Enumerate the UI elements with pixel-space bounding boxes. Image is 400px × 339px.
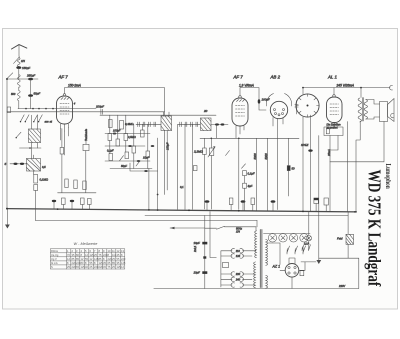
coil L2 xyxy=(17,75,20,88)
bus 3 xyxy=(145,215,348,217)
ground chassis xyxy=(6,209,8,225)
wire xyxy=(157,138,159,209)
wire xyxy=(238,138,240,209)
coil oscillator xyxy=(27,155,41,175)
svg-text:220: 220 xyxy=(121,257,126,261)
capacitor xyxy=(70,200,74,202)
wire xyxy=(18,101,20,109)
wire xyxy=(308,212,310,249)
capacitor padder xyxy=(13,163,17,165)
wire xyxy=(330,136,338,212)
resistor xyxy=(65,179,68,188)
wire xyxy=(310,115,312,212)
table Messwerte xyxy=(50,242,125,269)
wire xyxy=(277,119,279,210)
taps 220 xyxy=(231,272,255,276)
heater lamp 1 xyxy=(268,234,276,242)
svg-text:Röhre: Röhre xyxy=(51,249,59,253)
resistor black top xyxy=(314,198,318,204)
IF transformer 1 xyxy=(161,112,172,131)
taps 110 xyxy=(231,249,256,253)
switch pair wave/long xyxy=(21,115,30,122)
resistor on v61 xyxy=(60,148,64,155)
field coil xyxy=(346,234,354,244)
svg-text:Feld: Feld xyxy=(337,237,343,241)
wire xyxy=(347,122,349,212)
wire mixer bottom xyxy=(130,163,158,171)
svg-text:am at: am at xyxy=(45,120,53,124)
heater line xyxy=(264,233,311,235)
node xyxy=(32,108,34,110)
capacitor mixer a xyxy=(113,133,117,135)
wire return xyxy=(319,258,359,288)
svg-text:20: 20 xyxy=(203,109,208,113)
capacitor xyxy=(205,200,210,203)
coil bandfilter 1 xyxy=(29,115,41,142)
svg-text:220: 220 xyxy=(235,272,241,276)
ground 2 xyxy=(318,212,320,260)
svg-text:1,9 V/8mA: 1,9 V/8mA xyxy=(239,83,254,87)
IF transformer 2 xyxy=(201,118,212,131)
table grid xyxy=(50,249,125,269)
wire dial arrow xyxy=(170,227,205,229)
wire speaker return xyxy=(330,122,384,162)
wire xyxy=(110,141,148,169)
wire verticals mid xyxy=(178,124,193,209)
wire xyxy=(32,143,38,159)
svg-text:WD 375 K Landgraf: WD 375 K Landgraf xyxy=(364,170,383,287)
svg-text:50pF: 50pF xyxy=(121,164,127,168)
wire xyxy=(302,88,304,94)
wire xyxy=(288,138,290,196)
heater lamp 4 xyxy=(300,234,308,242)
component xyxy=(193,166,197,171)
capacitor 10uF xyxy=(202,242,207,245)
wire IF1 secondaries xyxy=(165,131,168,195)
resistor xyxy=(74,180,77,189)
connector Z xyxy=(391,113,394,117)
node xyxy=(29,147,31,149)
wire anode bus right xyxy=(303,87,390,89)
component xyxy=(120,121,124,130)
svg-text:AL 1: AL 1 xyxy=(327,75,338,80)
capacitor row 2 xyxy=(180,122,198,127)
resistor xyxy=(88,199,92,205)
node xyxy=(38,108,40,110)
wire xyxy=(267,243,305,288)
component xyxy=(243,171,247,176)
heater lamp 2 xyxy=(279,234,287,242)
fuse box xyxy=(223,263,229,268)
bus 2 xyxy=(35,219,257,221)
wire anode V2 xyxy=(240,88,259,100)
wire xyxy=(136,123,161,125)
svg-text:100pF: 100pF xyxy=(113,129,121,133)
svg-text:50pF: 50pF xyxy=(34,92,41,96)
wire bus g3 xyxy=(100,114,216,116)
svg-text:125: 125 xyxy=(121,261,126,265)
tube V3 AB2 xyxy=(270,101,287,118)
wire xyxy=(10,163,27,165)
switch antenna xyxy=(14,57,20,64)
svg-text:ΩΗ: ΩΗ xyxy=(21,59,25,63)
resistor 0,1M xyxy=(34,175,38,184)
svg-text:2x0,1: 2x0,1 xyxy=(193,245,197,253)
svg-text:SPEZ: SPEZ xyxy=(301,143,309,147)
resistor xyxy=(324,198,328,205)
tone capacitor xyxy=(83,144,89,150)
primary winding upper xyxy=(255,231,257,258)
selector rail xyxy=(221,251,232,287)
resistor xyxy=(81,198,85,205)
wire xyxy=(259,104,266,111)
wire bus avc xyxy=(200,137,299,139)
resistor xyxy=(251,198,255,205)
capacitor xyxy=(241,200,246,203)
switch xyxy=(302,245,311,251)
wire xyxy=(30,80,32,109)
svg-text:Tonblende: Tonblende xyxy=(84,128,88,141)
node xyxy=(6,208,8,210)
tube pins V2 xyxy=(236,126,244,138)
svg-text:0,5: 0,5 xyxy=(42,165,46,169)
output transformer xyxy=(358,88,367,122)
node xyxy=(148,209,150,211)
tube socket circle xyxy=(296,94,319,117)
svg-text:245 V/26mA: 245 V/26mA xyxy=(336,83,355,87)
tube V4 AL1 xyxy=(327,97,343,123)
svg-text:AB 2: AB 2 xyxy=(270,75,281,80)
capacitor row 1 xyxy=(138,122,156,127)
node xyxy=(302,87,304,89)
wire xyxy=(244,176,246,211)
wire xyxy=(18,69,20,79)
node xyxy=(188,209,190,211)
secondary winding lower xyxy=(266,275,268,288)
capacitor grid xyxy=(101,109,103,114)
node xyxy=(238,210,240,212)
switch 3 xyxy=(16,132,21,137)
coil L3 xyxy=(17,91,20,101)
resistor mid right xyxy=(287,166,290,171)
node xyxy=(25,108,27,110)
resistor xyxy=(229,198,233,205)
svg-text:2,5MΩ: 2,5MΩ xyxy=(127,135,136,139)
electrolytic rail xyxy=(204,216,206,289)
node xyxy=(52,108,54,110)
capacitor stub xyxy=(295,101,298,115)
wire mixer drop xyxy=(148,169,150,210)
component xyxy=(243,183,247,188)
tube V2 AF7 xyxy=(232,98,248,126)
wire bus2 drop xyxy=(256,220,258,227)
switch xyxy=(7,73,13,79)
wire xyxy=(18,87,20,91)
switch detector xyxy=(226,151,230,156)
component xyxy=(7,107,10,113)
wire xyxy=(34,209,36,221)
wire xyxy=(205,227,256,231)
resistor xyxy=(203,148,207,155)
wire xyxy=(20,147,42,149)
svg-text:2,2MΩ: 2,2MΩ xyxy=(193,150,204,154)
resistor xyxy=(62,198,66,205)
svg-text:Ik mA: Ik mA xyxy=(51,261,58,265)
svg-text:125: 125 xyxy=(236,254,241,258)
primary winding lower xyxy=(254,262,256,288)
svg-text:Ua Ug: Ua Ug xyxy=(51,253,59,257)
component xyxy=(34,185,38,191)
wire xyxy=(105,134,152,169)
svg-text:Ug V: Ug V xyxy=(51,257,57,261)
svg-text:0,1μF: 0,1μF xyxy=(248,172,255,176)
wire bus g1 xyxy=(18,108,96,110)
node xyxy=(360,87,362,89)
heater lamp 3 xyxy=(289,234,297,242)
svg-text:4μF: 4μF xyxy=(248,184,253,188)
svg-text:AF 7: AF 7 xyxy=(58,75,69,80)
svg-text:50: 50 xyxy=(292,167,296,171)
capacitor 250pF xyxy=(28,78,33,81)
rectifier AZ1 xyxy=(285,264,299,278)
switch pair 2 xyxy=(34,115,43,122)
wire AB2 pin stubs xyxy=(273,118,283,127)
node xyxy=(238,138,240,140)
wire xyxy=(347,212,349,258)
bottom line xyxy=(154,288,359,290)
svg-text:150pF: 150pF xyxy=(22,66,30,70)
svg-text:10μF: 10μF xyxy=(194,270,201,274)
svg-text:500: 500 xyxy=(11,92,16,96)
resistor xyxy=(326,129,329,134)
wire xyxy=(110,115,148,151)
capacitor 10uF b xyxy=(202,271,207,274)
svg-text:100pF: 100pF xyxy=(262,98,270,102)
secondary winding upper xyxy=(266,239,268,265)
wire xyxy=(273,233,305,235)
wire xyxy=(211,124,228,126)
coil L1 xyxy=(18,58,21,67)
resistor xyxy=(83,181,86,190)
svg-text:ΩΗ: ΩΗ xyxy=(236,229,240,233)
wire bus g2 xyxy=(7,111,165,113)
main bus xyxy=(7,209,356,212)
svg-text:240: 240 xyxy=(235,278,241,282)
wire stubs to bus xyxy=(54,202,326,211)
switch xyxy=(242,164,246,169)
wire AZ1 top pins xyxy=(289,258,295,264)
tube V1 AF7 xyxy=(57,96,73,124)
svg-text:AZ 1: AZ 1 xyxy=(272,265,281,269)
svg-text:S: S xyxy=(51,265,53,269)
taps 240 xyxy=(231,277,252,281)
capacitor xyxy=(308,149,312,151)
potentiometer xyxy=(209,148,214,156)
node xyxy=(157,194,159,196)
taps 125 xyxy=(231,254,252,258)
svg-text:AF 7: AF 7 xyxy=(233,75,244,80)
wire AB2 caps xyxy=(266,94,291,107)
wire xyxy=(178,123,200,125)
wire xyxy=(35,191,37,209)
node square xyxy=(203,256,206,258)
mains switch xyxy=(217,226,225,229)
wire xyxy=(302,117,304,212)
node xyxy=(354,211,356,213)
wire v61 xyxy=(61,129,63,193)
wire xyxy=(356,121,360,212)
capacitor bottom row a xyxy=(144,170,148,172)
node xyxy=(157,209,159,211)
wire v85 xyxy=(85,138,87,192)
svg-text:220V: 220V xyxy=(338,284,345,288)
wire antenna stem xyxy=(18,45,20,56)
component xyxy=(300,271,304,276)
wire xyxy=(318,136,320,212)
wire left rail xyxy=(6,79,8,209)
svg-text:100pF: 100pF xyxy=(96,105,104,109)
node xyxy=(211,138,213,140)
taps extra xyxy=(231,283,255,287)
resistor xyxy=(109,120,113,128)
mixer cluster boxes xyxy=(108,134,112,141)
switch mixer b xyxy=(136,161,140,166)
svg-text:Lumophon: Lumophon xyxy=(384,164,392,190)
capacitor xyxy=(215,123,219,125)
node xyxy=(302,211,304,213)
core xyxy=(260,230,262,288)
power transformer xyxy=(254,230,268,289)
wire xyxy=(287,253,303,255)
wire anode V1 xyxy=(65,88,165,116)
capacitor xyxy=(271,200,276,203)
wire xyxy=(61,128,69,156)
svg-text:0,1MΩ: 0,1MΩ xyxy=(40,178,49,182)
node xyxy=(45,108,47,110)
wire xyxy=(333,88,335,95)
pilot lamp xyxy=(306,235,311,240)
capacitor 150pF xyxy=(16,66,21,69)
table text xyxy=(51,249,126,269)
svg-text:0,1μF: 0,1μF xyxy=(107,149,114,153)
wire xyxy=(215,125,217,139)
svg-text:10μF: 10μF xyxy=(194,241,201,245)
switch mixer a xyxy=(120,156,124,161)
wire xyxy=(210,212,216,258)
wire xyxy=(256,138,267,211)
svg-text:10pF: 10pF xyxy=(143,156,149,160)
wire xyxy=(204,138,211,209)
switch contacts xyxy=(287,246,306,253)
capacitor mixer b xyxy=(128,145,132,147)
wire xyxy=(7,78,38,80)
speaker xyxy=(366,99,394,122)
capacitor mixer c xyxy=(137,160,141,162)
capacitor mixer d xyxy=(151,145,155,147)
wire xyxy=(333,123,335,128)
svg-text:0,1: 0,1 xyxy=(180,185,184,189)
node xyxy=(57,208,59,210)
node xyxy=(6,78,8,80)
svg-text:110: 110 xyxy=(236,249,241,253)
svg-text:150·2mA: 150·2mA xyxy=(68,83,81,87)
svg-text:0,3MΩ: 0,3MΩ xyxy=(125,122,134,126)
AL1 cathode network xyxy=(324,127,343,136)
svg-text:100pF: 100pF xyxy=(166,142,170,150)
antenna xyxy=(12,45,27,49)
capacitor xyxy=(221,123,225,125)
connector C xyxy=(390,85,393,90)
wire xyxy=(301,261,316,263)
capacitor padder2 xyxy=(20,163,24,165)
wire xyxy=(58,192,96,194)
capacitor xyxy=(52,200,56,202)
capacitor 100pF xyxy=(258,99,261,103)
svg-text:250pF: 250pF xyxy=(26,74,35,78)
capacitor 50pF xyxy=(28,94,33,97)
svg-text:W - Meßwerte: W - Meßwerte xyxy=(74,242,98,246)
